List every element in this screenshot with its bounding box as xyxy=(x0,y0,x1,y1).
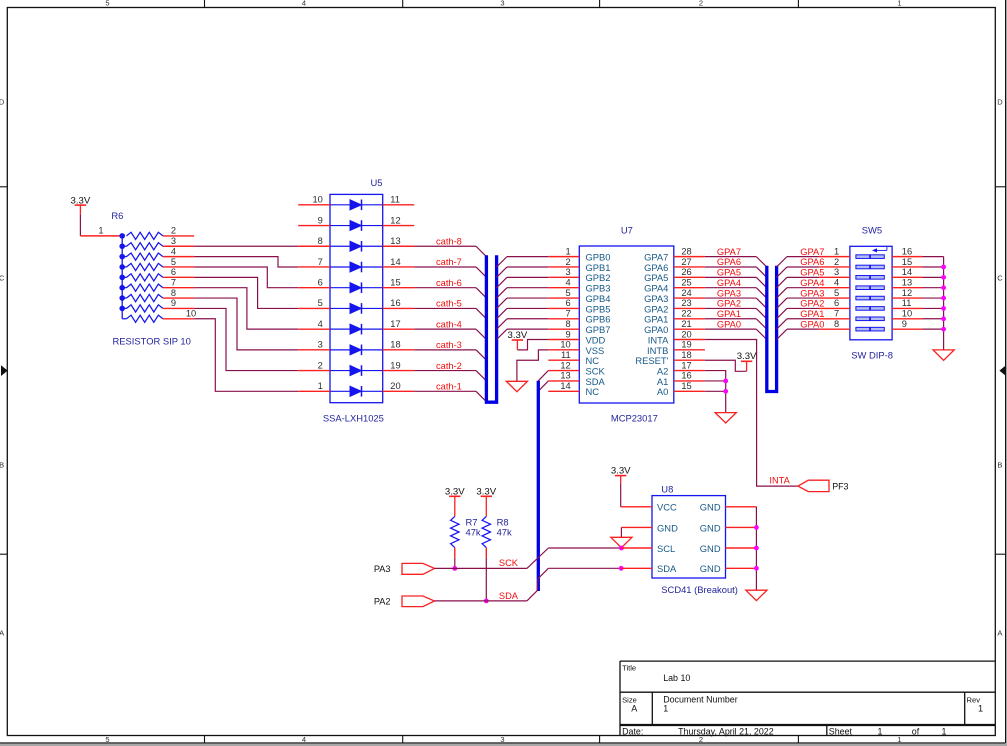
bus SCK/SDA xyxy=(537,381,540,591)
wire U7 GPA7 to bus xyxy=(705,257,767,267)
svg-text:GPA4: GPA4 xyxy=(717,278,741,288)
net label GPA4 (right) xyxy=(800,278,824,288)
svg-text:SW5: SW5 xyxy=(862,224,882,235)
svg-text:GPB5: GPB5 xyxy=(586,303,611,314)
wire cath-2 U5 to bus xyxy=(414,371,486,381)
svg-text:GPA0: GPA0 xyxy=(717,319,741,329)
svg-text:1: 1 xyxy=(834,246,839,256)
svg-text:GPB3: GPB3 xyxy=(586,283,611,294)
ground (U8 GND left) xyxy=(611,537,632,547)
wire R6.6 to U5.5 xyxy=(194,277,298,308)
U7 pin numbers xyxy=(560,246,691,391)
svg-text:8: 8 xyxy=(566,319,571,329)
net label GPA1 (right) xyxy=(800,309,824,319)
wire bus to SW5 pin 8 xyxy=(777,329,819,339)
power symbol 3.3V (U7 VDD) xyxy=(508,330,528,350)
svg-text:1: 1 xyxy=(566,246,571,256)
junction (SCL) xyxy=(619,546,624,551)
svg-text:3.3V: 3.3V xyxy=(476,486,496,497)
svg-text:7: 7 xyxy=(318,257,323,267)
svg-text:GPA5: GPA5 xyxy=(800,268,824,278)
svg-text:8: 8 xyxy=(834,319,839,329)
wire R6.9 to U5.2 xyxy=(194,308,298,370)
svg-text:3.3V: 3.3V xyxy=(71,196,91,207)
wire SW5 pins 9-16 to ground xyxy=(923,257,944,350)
svg-text:U8: U8 xyxy=(661,483,673,494)
resistor R7 47k xyxy=(451,516,459,558)
svg-text:GPA6: GPA6 xyxy=(717,257,741,267)
net label INTA xyxy=(769,476,790,486)
SW5 pin stubs xyxy=(819,257,923,330)
svg-text:GPA1: GPA1 xyxy=(717,309,741,319)
label SW5 xyxy=(862,224,882,235)
net label GPA3 (right) xyxy=(800,288,824,298)
port PF3 xyxy=(798,480,849,491)
wire U7 GPA5 to bus xyxy=(705,277,767,287)
svg-text:B: B xyxy=(997,460,1002,469)
svg-text:20: 20 xyxy=(390,381,400,391)
svg-text:7: 7 xyxy=(171,278,176,288)
wire net SDA (PA2 to U8 SDA) xyxy=(435,568,622,601)
wire R6.10 to U5.1 xyxy=(194,319,298,392)
svg-text:9: 9 xyxy=(902,319,907,329)
svg-text:12: 12 xyxy=(902,288,912,298)
wire cath-6 U5 to bus xyxy=(414,288,486,298)
svg-text:9: 9 xyxy=(566,329,571,339)
svg-text:NC: NC xyxy=(586,355,600,366)
net label GPA2 (left) xyxy=(717,299,741,309)
svg-text:A1: A1 xyxy=(657,376,668,387)
svg-text:47k: 47k xyxy=(497,527,512,538)
net label GPA0 (right) xyxy=(800,319,824,329)
svg-text:D: D xyxy=(0,98,5,107)
svg-text:5: 5 xyxy=(566,288,571,298)
wire bus to U7 GPB1 xyxy=(497,267,549,277)
svg-text:11: 11 xyxy=(390,195,400,205)
resistor R6 (SIP-10) xyxy=(119,232,163,322)
svg-text:Sheet: Sheet xyxy=(829,726,853,736)
IC U7 (MCP23017) body xyxy=(579,246,674,403)
net label cath-2 xyxy=(436,361,462,371)
svg-text:3: 3 xyxy=(171,236,176,246)
svg-text:10: 10 xyxy=(902,309,912,319)
svg-text:5: 5 xyxy=(318,298,323,308)
net label GPA5 (right) xyxy=(800,268,824,278)
svg-text:3.3V: 3.3V xyxy=(508,330,528,341)
svg-text:C: C xyxy=(997,273,1003,282)
svg-text:14: 14 xyxy=(902,267,912,277)
wire 3.3V to U8 VCC xyxy=(621,483,652,507)
svg-text:GPA1: GPA1 xyxy=(644,314,668,325)
label R8 xyxy=(497,516,512,537)
svg-text:Thursday, April 21, 2022: Thursday, April 21, 2022 xyxy=(678,726,774,736)
wire U7 GPA1 to bus xyxy=(705,319,767,329)
wire U7 SDA to bus xyxy=(538,381,548,391)
net label cath-3 xyxy=(436,340,462,350)
svg-text:16: 16 xyxy=(390,298,400,308)
label SW DIP-8 xyxy=(851,350,893,361)
label R6 xyxy=(111,210,123,221)
svg-text:12: 12 xyxy=(390,215,400,225)
svg-text:5: 5 xyxy=(834,288,839,298)
power symbol 3.3V (R7) xyxy=(445,486,465,516)
wire bus to SW5 pin 5 xyxy=(777,298,819,308)
U5 pin stubs xyxy=(298,205,414,391)
svg-text:11: 11 xyxy=(561,350,571,360)
svg-text:7: 7 xyxy=(566,309,571,319)
R6 pin numbers xyxy=(98,226,196,319)
svg-text:13: 13 xyxy=(390,236,400,246)
svg-text:15: 15 xyxy=(681,381,691,391)
wire U7 GPA0 to bus xyxy=(705,329,767,339)
svg-text:GPA6: GPA6 xyxy=(800,257,824,267)
svg-text:RESISTOR SIP 10: RESISTOR SIP 10 xyxy=(113,336,191,347)
svg-text:13: 13 xyxy=(560,371,570,381)
svg-text:VDD: VDD xyxy=(586,334,606,345)
svg-text:SCL: SCL xyxy=(657,543,675,554)
svg-text:5: 5 xyxy=(105,0,109,7)
svg-text:NC: NC xyxy=(586,386,600,397)
net label GPA0 (left) xyxy=(717,319,741,329)
bus GPA (U7 to SW5) xyxy=(767,266,777,392)
wire R6.7 to U5.4 xyxy=(194,288,298,329)
wire R6.3 to U5.8 xyxy=(194,245,298,247)
svg-text:1: 1 xyxy=(942,726,947,736)
net label GPA4 (left) xyxy=(717,278,741,288)
svg-text:GND: GND xyxy=(700,522,721,533)
svg-text:10: 10 xyxy=(186,309,196,319)
svg-text:5: 5 xyxy=(105,735,109,744)
svg-text:GPA2: GPA2 xyxy=(644,303,668,314)
svg-text:14: 14 xyxy=(390,257,400,267)
svg-text:6: 6 xyxy=(171,267,176,277)
wire bus to SW5 pin 3 xyxy=(777,277,819,287)
label SSA-LXH1025 xyxy=(323,412,384,423)
svg-text:2: 2 xyxy=(834,257,839,267)
wire cath-8 U5 to bus xyxy=(414,246,486,256)
net label GPA7 (left) xyxy=(717,247,741,257)
label U8 xyxy=(661,483,673,494)
wire U7 VSS to ground xyxy=(517,350,548,381)
label U5 xyxy=(371,177,383,188)
svg-text:17: 17 xyxy=(390,319,400,329)
wire bus to U7 GPB3 xyxy=(497,288,549,298)
svg-text:INTA: INTA xyxy=(648,334,669,345)
svg-text:8: 8 xyxy=(318,236,323,246)
label MCP23017 xyxy=(611,413,658,424)
svg-text:GPA2: GPA2 xyxy=(717,299,741,309)
svg-text:10: 10 xyxy=(560,340,570,350)
wire bus to SW5 pin 6 xyxy=(777,308,819,318)
DIP switch SW5 body xyxy=(850,246,892,339)
svg-text:GND: GND xyxy=(700,543,721,554)
svg-text:1: 1 xyxy=(978,703,983,713)
label U7 xyxy=(621,225,633,236)
svg-text:A0: A0 xyxy=(657,386,668,397)
ground (SW5) xyxy=(933,350,954,360)
wire cath-5 U5 to bus xyxy=(414,308,486,318)
svg-text:3.3V: 3.3V xyxy=(445,486,465,497)
wire U7 A2/A1/A0 to ground xyxy=(705,371,726,413)
svg-text:PF3: PF3 xyxy=(832,481,848,491)
net label GPA6 (left) xyxy=(717,257,741,267)
svg-text:GPB7: GPB7 xyxy=(586,324,611,335)
svg-text:8: 8 xyxy=(171,288,176,298)
svg-text:4: 4 xyxy=(566,278,571,288)
wire U7 INTA to PF3 xyxy=(705,340,798,487)
svg-text:GPA5: GPA5 xyxy=(644,272,668,283)
wire net SCK (PA3 to U8 SCL) xyxy=(435,548,622,568)
ground (U8 GND right) xyxy=(746,590,767,600)
svg-text:3.3V: 3.3V xyxy=(737,351,757,362)
svg-text:GPA1: GPA1 xyxy=(800,309,824,319)
svg-text:15: 15 xyxy=(902,257,912,267)
wire U7 GPA4 to bus xyxy=(705,288,767,298)
svg-text:GPA3: GPA3 xyxy=(644,293,668,304)
svg-text:GPA4: GPA4 xyxy=(800,278,824,288)
svg-text:GND: GND xyxy=(657,522,678,533)
wire bus to U7 GPB4 xyxy=(497,298,549,308)
svg-text:SW DIP-8: SW DIP-8 xyxy=(851,350,893,361)
ground (U7 VSS) xyxy=(506,381,527,391)
svg-text:GPB4: GPB4 xyxy=(586,293,611,304)
svg-text:GPA2: GPA2 xyxy=(800,299,824,309)
svg-text:GPA7: GPA7 xyxy=(644,252,668,263)
U8 SCL/SDA pin stubs xyxy=(621,548,652,568)
junction (A1) xyxy=(723,379,728,384)
svg-text:4: 4 xyxy=(834,278,839,288)
port PA3 xyxy=(374,563,435,574)
net label cath-5 xyxy=(436,299,462,309)
power symbol 3.3V (U8 VCC) xyxy=(611,465,631,483)
LED array U5 (SSA-LXH1025) xyxy=(330,194,383,402)
svg-text:27: 27 xyxy=(681,257,691,267)
net label GPA3 (left) xyxy=(717,288,741,298)
wire U8 GND pins to ground rail xyxy=(726,507,757,590)
wire R6.5 to U5.6 xyxy=(194,267,298,288)
svg-text:21: 21 xyxy=(681,319,691,329)
wire cath-4 U5 to bus xyxy=(414,329,486,339)
net label GPA2 (right) xyxy=(800,299,824,309)
SW5 pin numbers xyxy=(834,246,912,329)
svg-text:GPA0: GPA0 xyxy=(644,324,668,335)
wire bus to U7 GPB2 xyxy=(497,277,549,287)
wire bus to U7 GPB6 xyxy=(497,319,549,329)
power symbol 3.3V (R8) xyxy=(476,486,496,516)
svg-text:4: 4 xyxy=(302,0,306,7)
svg-text:4: 4 xyxy=(302,735,306,744)
junction (R8/SDA) xyxy=(484,599,489,604)
svg-text:SDA: SDA xyxy=(499,591,519,601)
svg-text:GPA6: GPA6 xyxy=(644,262,668,273)
svg-text:GPA0: GPA0 xyxy=(800,319,824,329)
svg-text:4: 4 xyxy=(318,319,323,329)
power symbol 3.3V (U7 RESET') xyxy=(737,351,757,371)
svg-text:20: 20 xyxy=(681,329,691,339)
wire bus to SW5 pin 1 xyxy=(777,257,819,267)
wire U7 VDD to 3.3V xyxy=(517,340,548,350)
svg-text:1: 1 xyxy=(897,0,901,7)
svg-text:10: 10 xyxy=(312,195,322,205)
svg-text:3: 3 xyxy=(500,735,504,744)
svg-text:VSS: VSS xyxy=(586,345,605,356)
svg-text:1: 1 xyxy=(897,735,901,744)
wire bus to U7 GPB0 xyxy=(497,257,549,267)
svg-text:47k: 47k xyxy=(466,527,481,538)
svg-text:14: 14 xyxy=(560,381,570,391)
svg-text:Document Number: Document Number xyxy=(663,694,738,704)
svg-text:1: 1 xyxy=(663,703,668,713)
title block xyxy=(620,661,995,736)
power symbol 3.3V (R6) xyxy=(71,196,91,215)
wire U7 SCK to bus xyxy=(538,371,548,381)
svg-text:23: 23 xyxy=(681,298,691,308)
svg-text:INTA: INTA xyxy=(769,476,790,486)
R6 pin stubs 2-10 xyxy=(163,236,194,319)
net label cath-6 xyxy=(436,278,462,288)
wire R8 to SDA xyxy=(485,558,487,601)
svg-text:Date:: Date: xyxy=(622,726,643,736)
svg-text:SDA: SDA xyxy=(586,376,606,387)
net label GPA7 (right) xyxy=(800,247,824,257)
svg-text:GPB6: GPB6 xyxy=(586,314,611,325)
svg-text:C: C xyxy=(0,273,5,282)
svg-text:6: 6 xyxy=(834,298,839,308)
svg-text:GPA3: GPA3 xyxy=(800,288,824,298)
svg-text:B: B xyxy=(0,460,4,469)
svg-text:cath-7: cath-7 xyxy=(436,257,462,267)
svg-text:9: 9 xyxy=(318,215,323,225)
svg-text:17: 17 xyxy=(681,360,691,370)
svg-text:SDA: SDA xyxy=(657,563,677,574)
wire R6.4 to U5.7 xyxy=(194,257,298,267)
svg-text:cath-3: cath-3 xyxy=(436,340,462,350)
svg-text:Lab 10: Lab 10 xyxy=(663,673,690,683)
wire U7 GPA6 to bus xyxy=(705,267,767,277)
svg-text:22: 22 xyxy=(681,309,691,319)
U7 pin stubs xyxy=(548,257,705,392)
svg-text:2: 2 xyxy=(318,360,323,370)
IC U8 (SCD41 breakout) body xyxy=(652,496,726,578)
svg-text:7: 7 xyxy=(834,309,839,319)
svg-text:GPA4: GPA4 xyxy=(644,283,668,294)
wire bus to U7 GPB7 xyxy=(497,329,549,339)
svg-text:2: 2 xyxy=(699,735,703,744)
label R7 xyxy=(466,516,481,537)
wire U7 GPA3 to bus xyxy=(705,298,767,308)
svg-text:12: 12 xyxy=(560,360,570,370)
svg-text:GPA5: GPA5 xyxy=(717,268,741,278)
junctions (SW5 ground rail) xyxy=(941,265,946,332)
svg-text:A: A xyxy=(631,703,637,713)
net label SDA xyxy=(499,591,519,601)
junction (A0) xyxy=(723,389,728,394)
svg-text:RESET': RESET' xyxy=(635,355,668,366)
svg-text:MCP23017: MCP23017 xyxy=(611,413,658,424)
U5 pin numbers xyxy=(312,195,400,391)
svg-text:cath-4: cath-4 xyxy=(436,319,462,329)
svg-text:3: 3 xyxy=(318,340,323,350)
svg-text:A: A xyxy=(997,628,1002,637)
svg-text:GPA3: GPA3 xyxy=(717,288,741,298)
svg-text:3: 3 xyxy=(834,267,839,277)
svg-text:R6: R6 xyxy=(111,210,123,221)
svg-text:16: 16 xyxy=(681,371,691,381)
svg-text:26: 26 xyxy=(681,267,691,277)
U7 pin names xyxy=(586,252,670,398)
svg-text:6: 6 xyxy=(318,278,323,288)
svg-text:GPB1: GPB1 xyxy=(586,262,611,273)
net label cath-4 xyxy=(436,319,462,329)
svg-text:2: 2 xyxy=(699,0,703,7)
svg-text:11: 11 xyxy=(902,298,912,308)
svg-text:13: 13 xyxy=(902,278,912,288)
svg-text:GPB2: GPB2 xyxy=(586,272,611,283)
svg-text:A2: A2 xyxy=(657,365,668,376)
svg-text:D: D xyxy=(997,98,1003,107)
svg-text:cath-1: cath-1 xyxy=(436,382,462,392)
svg-text:SCK: SCK xyxy=(586,365,606,376)
svg-text:A: A xyxy=(0,628,4,637)
wire R6.8 to U5.3 xyxy=(194,298,298,350)
bus cath (U5 to U7) xyxy=(486,255,496,402)
svg-text:Title: Title xyxy=(622,663,636,672)
svg-text:GND: GND xyxy=(700,502,721,513)
svg-text:3.3V: 3.3V xyxy=(611,465,631,476)
svg-text:15: 15 xyxy=(390,278,400,288)
svg-text:18: 18 xyxy=(681,350,691,360)
svg-text:1: 1 xyxy=(98,226,103,236)
resistor R8 47k xyxy=(482,516,490,558)
wire U7 GPA2 to bus xyxy=(705,308,767,318)
ground (U7 A pins) xyxy=(715,413,736,423)
net label cath-7 xyxy=(436,257,462,267)
wire bus to SW5 pin 7 xyxy=(777,319,819,329)
svg-text:PA3: PA3 xyxy=(374,564,391,574)
svg-text:1: 1 xyxy=(318,381,323,391)
label RESISTOR SIP 10 xyxy=(113,336,191,347)
svg-text:SCD41 (Breakout): SCD41 (Breakout) xyxy=(661,584,738,595)
svg-text:SCK: SCK xyxy=(499,558,519,568)
svg-text:24: 24 xyxy=(681,288,691,298)
junctions (U8 GND rail) xyxy=(754,525,759,571)
svg-text:25: 25 xyxy=(681,278,691,288)
svg-text:9: 9 xyxy=(171,298,176,308)
wire R7 to SCK xyxy=(454,558,456,569)
svg-text:1: 1 xyxy=(878,726,883,736)
net label GPA1 (left) xyxy=(717,309,741,319)
wire bus to SW5 pin 4 xyxy=(777,288,819,298)
port PA2 xyxy=(374,596,435,607)
net label cath-1 xyxy=(436,382,462,392)
svg-text:GPB0: GPB0 xyxy=(586,252,611,263)
wire cath-7 U5 to bus xyxy=(414,267,486,277)
svg-text:3: 3 xyxy=(500,0,504,7)
svg-text:5: 5 xyxy=(171,257,176,267)
net label GPA6 (right) xyxy=(800,257,824,267)
svg-text:6: 6 xyxy=(566,298,571,308)
svg-text:VCC: VCC xyxy=(657,502,677,513)
svg-text:cath-6: cath-6 xyxy=(436,278,462,288)
svg-text:19: 19 xyxy=(681,340,691,350)
wire cath-1 U5 to bus xyxy=(414,391,486,401)
svg-text:U5: U5 xyxy=(371,177,383,188)
svg-text:INTB: INTB xyxy=(647,345,668,356)
svg-text:of: of xyxy=(912,726,920,736)
svg-text:cath-5: cath-5 xyxy=(436,299,462,309)
svg-text:cath-2: cath-2 xyxy=(436,361,462,371)
svg-text:GPA7: GPA7 xyxy=(800,247,824,257)
